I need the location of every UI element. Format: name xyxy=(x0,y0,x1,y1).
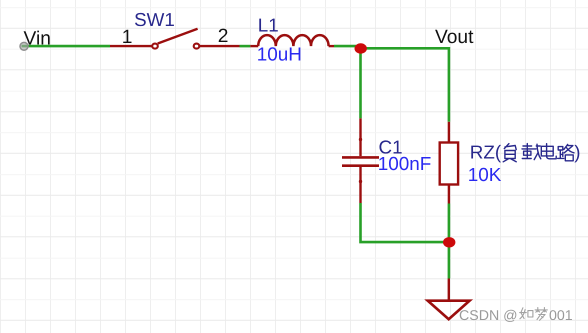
svg-text:10uH: 10uH xyxy=(257,45,302,66)
svg-text:RZ(: RZ( xyxy=(470,142,502,163)
svg-text:SW1: SW1 xyxy=(134,9,175,30)
svg-text:10K: 10K xyxy=(468,165,502,186)
svg-text:2: 2 xyxy=(218,26,229,47)
svg-text:): ) xyxy=(574,142,580,163)
svg-text:1: 1 xyxy=(122,27,133,48)
svg-text:Vout: Vout xyxy=(435,27,474,48)
svg-text:001: 001 xyxy=(549,308,573,324)
svg-text:L1: L1 xyxy=(258,14,279,35)
svg-text:CSDN @: CSDN @ xyxy=(459,308,518,324)
svg-text:100nF: 100nF xyxy=(378,154,432,175)
svg-text:Vin: Vin xyxy=(24,29,51,50)
